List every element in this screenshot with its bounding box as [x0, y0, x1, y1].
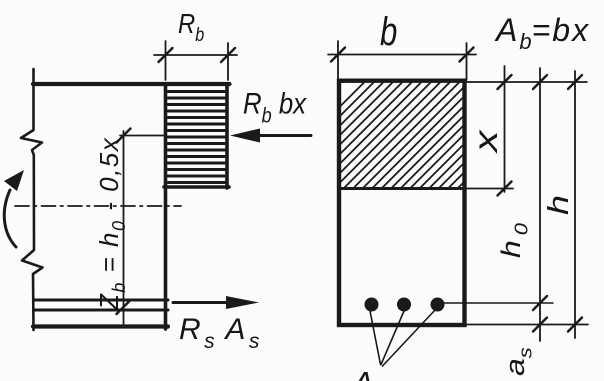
leader line 1	[370, 311, 381, 365]
steel centroid extension line	[444, 302, 553, 304]
force arrow Rs·As shaft	[173, 301, 230, 304]
stress block horizontal hatching	[168, 92, 225, 183]
leader line 2	[381, 311, 404, 365]
top extension line	[467, 81, 587, 83]
rebar circle 2	[397, 298, 411, 312]
extension line at compression zone bottom	[467, 188, 513, 190]
cross-section rectangle	[339, 81, 465, 325]
compression zone bottom boundary	[339, 187, 465, 190]
compression zone hatching	[247, 50, 604, 200]
svg-text:x: x	[468, 128, 505, 154]
dimension b: tick right	[460, 48, 474, 62]
dimension h tick top	[568, 75, 582, 89]
Zb tick bottom	[117, 300, 131, 314]
force arrow Rs·As head	[226, 296, 259, 309]
Zb tick top	[117, 129, 131, 143]
dimension h tick bottom	[568, 318, 582, 332]
neutral axis dash-dot line	[15, 205, 181, 207]
section line	[164, 84, 168, 329]
dimension Rb: extension line right	[227, 43, 229, 80]
dimension Rb: tick right	[221, 48, 235, 62]
rebar circle 1	[365, 298, 379, 312]
svg-text:Ab=bx: Ab=bx	[494, 12, 590, 54]
stress block right edge	[225, 84, 229, 188]
dimension h0 tick at steel level	[533, 296, 547, 310]
dimension h line	[574, 71, 576, 338]
stress block bottom edge	[164, 185, 229, 189]
tension steel lower line	[34, 309, 168, 312]
dimension h0 tick bottom	[533, 318, 547, 332]
force arrow Rb·b·x head	[230, 129, 260, 143]
beam bottom edge	[33, 324, 168, 328]
tension steel upper line	[34, 299, 168, 302]
rebar circle 3	[431, 298, 445, 312]
beam left edge with break symbols	[21, 69, 43, 330]
dimension b: extension line right	[466, 43, 468, 80]
dimension h0 line	[539, 68, 541, 341]
svg-text:b: b	[380, 9, 397, 54]
dimension x tick bottom	[498, 182, 512, 196]
force arrow Rb·b·x shaft	[258, 134, 311, 137]
moment arrow M	[4, 190, 16, 247]
dimension x line	[504, 66, 506, 192]
dimension b: dimension line	[328, 54, 476, 56]
dimension Rb: extension line left	[165, 41, 167, 80]
dimension b: tick left	[331, 48, 345, 62]
beam top chord line	[33, 82, 230, 86]
Zb dimension line	[123, 131, 125, 324]
dimension Rb: dimension line	[154, 54, 237, 56]
0.5x level line	[120, 135, 166, 137]
leader line 3	[383, 309, 437, 366]
bottom extension line	[467, 324, 588, 326]
dimension h0 tick top	[533, 75, 547, 89]
svg-text:h: h	[541, 195, 574, 215]
dimension Rb: tick left	[159, 48, 173, 62]
dimension b: extension line left	[337, 41, 339, 80]
dimension x tick top	[498, 75, 512, 89]
